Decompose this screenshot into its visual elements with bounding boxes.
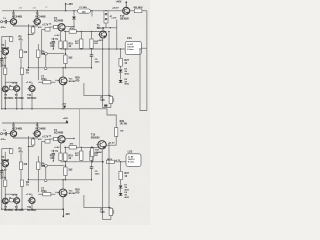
resistor R6' xyxy=(4,167,7,187)
ground branch' xyxy=(2,148,11,150)
bias horizontal wire' xyxy=(28,179,92,180)
wire rail corner to lower stage xyxy=(107,109,116,128)
svg-text:47k: 47k xyxy=(19,150,24,153)
svg-text:+40V: +40V xyxy=(116,0,122,3)
wire R3 down' xyxy=(28,136,33,180)
svg-text:LS1: LS1 xyxy=(127,36,132,40)
wire T4 top' xyxy=(62,179,63,189)
wire R19 top' xyxy=(91,147,92,151)
svg-text:BC546B: BC546B xyxy=(54,131,63,134)
zobel vertical 2 xyxy=(108,31,109,96)
label +2.7V xyxy=(42,24,49,27)
right edge output drop xyxy=(146,11,148,48)
trimmer stub xyxy=(103,103,111,107)
ground line left' xyxy=(1,149,2,210)
wire D7-D9 xyxy=(120,189,122,193)
-40V rail top channel xyxy=(2,105,107,109)
wire T15 emitter' xyxy=(101,149,103,162)
wire T3 collector up xyxy=(65,26,75,27)
wire rail drop to R27 xyxy=(78,109,80,148)
transistor T17 output xyxy=(112,7,130,21)
transistor T9' xyxy=(12,194,20,203)
wire R9 top xyxy=(37,44,39,50)
svg-text:220u: 220u xyxy=(0,176,6,179)
wire R5-R7 xyxy=(20,58,22,69)
resistor R15a xyxy=(64,41,74,49)
wire R5-R7' xyxy=(20,170,22,181)
wire T4 down' xyxy=(62,197,63,210)
output node wire' xyxy=(61,161,104,163)
zobel vertical 1 xyxy=(102,39,104,108)
capacitor C1 xyxy=(1,18,11,29)
resistor R21 xyxy=(91,10,112,23)
+40V arrow at T17 xyxy=(116,0,128,7)
feedback bracket xyxy=(75,77,111,96)
resistor R4' xyxy=(38,138,50,143)
wire R4 to TP' xyxy=(42,143,45,166)
capacitor C3' xyxy=(0,171,7,180)
svg-text:+0.7V: +0.7V xyxy=(115,160,121,162)
transistor T11 xyxy=(26,82,35,92)
svg-text:3k3: 3k3 xyxy=(68,168,73,171)
svg-text:100: 100 xyxy=(50,45,55,48)
svg-text:0R22: 0R22 xyxy=(107,159,113,161)
wire R9 top' xyxy=(37,156,39,162)
resistor R27 xyxy=(119,58,130,66)
wires lower row to rail' xyxy=(5,203,33,209)
resistor R13' xyxy=(50,153,62,160)
resistor R7' xyxy=(20,180,29,187)
diode D9 xyxy=(119,192,130,199)
label R5 xyxy=(19,36,24,42)
test point TP1' xyxy=(45,164,66,167)
capacitor C9 xyxy=(90,39,104,69)
wire R37-D7 xyxy=(120,180,122,185)
resistor R11' xyxy=(49,136,58,141)
trimmer P1' xyxy=(100,207,113,215)
svg-text:BD140: BD140 xyxy=(69,192,77,195)
transistor labels' xyxy=(15,206,37,212)
svg-text:500: 500 xyxy=(100,211,105,214)
resistor R35' xyxy=(106,159,126,163)
loudspeaker LS1 xyxy=(125,36,141,54)
resistor R23' xyxy=(9,197,13,201)
wire loop top xyxy=(139,48,147,55)
wire R9 to C7 node xyxy=(37,58,39,81)
transistor T7' xyxy=(1,198,14,212)
svg-text:+3.4V: +3.4V xyxy=(54,34,60,37)
wire T2 collector to rail' xyxy=(37,122,38,130)
fuse F1 xyxy=(78,6,91,13)
junction x65.4 xyxy=(65,48,66,49)
capacitor C7' xyxy=(38,187,55,195)
bias horizontal wire xyxy=(28,67,92,68)
svg-text:BD140: BD140 xyxy=(69,80,77,83)
svg-text:470n: 470n xyxy=(41,190,47,193)
svg-text:-40V: -40V xyxy=(62,103,67,106)
wire T7cs up' xyxy=(4,152,6,160)
transistor T4 xyxy=(58,77,77,85)
svg-text:2N3055: 2N3055 xyxy=(91,136,100,139)
svg-text:+40.6V: +40.6V xyxy=(112,7,119,10)
wire LS1 right xyxy=(141,47,147,49)
junction em' xyxy=(102,161,121,162)
capacitor C5 xyxy=(51,38,59,50)
svg-text:470: 470 xyxy=(75,79,80,82)
ground branch xyxy=(2,36,11,38)
svg-text:1R 1W: 1R 1W xyxy=(120,122,128,125)
wire T7cs up xyxy=(4,40,6,48)
svg-text:2N3055: 2N3055 xyxy=(120,18,129,21)
transistor T5 xyxy=(97,24,107,38)
wire R17 top xyxy=(81,31,82,39)
svg-text:100n: 100n xyxy=(95,173,101,175)
transistor T5b' xyxy=(91,134,100,140)
label +2.7V' xyxy=(42,136,49,139)
boucherot chain top b xyxy=(115,160,121,171)
capacitor C3 xyxy=(0,59,7,68)
wires lower row tops xyxy=(5,82,32,86)
wire R4 to TP xyxy=(42,31,45,54)
capacitor C1' xyxy=(1,130,11,141)
wire T4 down xyxy=(62,85,63,110)
resistor R19 xyxy=(90,39,99,48)
resistor R5' xyxy=(19,162,28,170)
test point TP1 xyxy=(45,52,66,55)
junction x120.6 xyxy=(120,48,121,49)
wire R17 top' xyxy=(81,147,82,151)
svg-text:LS2: LS2 xyxy=(128,149,133,153)
-40V arrow node xyxy=(62,103,67,109)
ground line left xyxy=(1,37,2,110)
wire T1 collector to rail xyxy=(13,10,14,18)
transistor T2 xyxy=(33,12,46,25)
wire T4 base' xyxy=(55,191,59,193)
svg-text:220u: 220u xyxy=(0,64,6,67)
wire R7 to rail' xyxy=(21,187,22,210)
svg-text:+2.7V: +2.7V xyxy=(42,136,49,139)
junction x116.8 xyxy=(116,48,117,49)
svg-text:BC560C: BC560C xyxy=(15,97,24,100)
-40V arrow node bottom xyxy=(62,209,70,218)
wire T3 emitter' xyxy=(54,143,61,153)
loudspeaker LS2 xyxy=(126,149,141,166)
wire R6 to rail' xyxy=(5,187,6,210)
wire R27-D3 xyxy=(120,66,122,69)
svg-text:-40V: -40V xyxy=(65,213,70,216)
svg-text:R29 0R22: R29 0R22 xyxy=(134,7,144,9)
wire emitter join' xyxy=(14,137,38,139)
resistor R15b xyxy=(64,55,73,64)
junction x102.7 xyxy=(102,48,103,49)
svg-text:8 ohm: 8 ohm xyxy=(128,161,134,163)
zobel vertical 1b' xyxy=(102,161,111,219)
svg-text:+1.4V: +1.4V xyxy=(1,57,7,60)
node +37V xyxy=(111,18,117,49)
faint header marks xyxy=(19,7,48,9)
junction x109.0 xyxy=(108,48,109,49)
bias chain vertical xyxy=(65,31,66,68)
wire T4 base xyxy=(55,79,59,81)
resistor R9 xyxy=(37,50,46,58)
resistor R9' xyxy=(37,162,46,170)
wire R3 down xyxy=(28,24,33,68)
vas line xyxy=(64,27,107,33)
capacitor C7 xyxy=(38,75,55,83)
transistor T7 xyxy=(1,86,14,100)
label R5' xyxy=(19,148,24,154)
junction x81.3 xyxy=(81,48,82,49)
boucherot chain top xyxy=(120,49,122,58)
-40V rail bottom channel xyxy=(2,208,64,210)
label node41' xyxy=(0,0,1,1)
transistor T9 xyxy=(12,82,20,91)
resistor R7 xyxy=(20,68,29,75)
wire T3 emitter xyxy=(54,31,61,41)
wire R7 to rail xyxy=(21,75,22,110)
svg-text:47k: 47k xyxy=(23,51,28,54)
+40V supply arrow node xyxy=(65,3,74,12)
junction x91.5 xyxy=(91,48,92,49)
resistor R17 xyxy=(75,39,83,48)
svg-text:+2.7V: +2.7V xyxy=(42,24,49,27)
svg-text:470n: 470n xyxy=(1,138,7,141)
transistor T1 xyxy=(9,12,22,25)
wires lower row tops' xyxy=(5,194,32,198)
svg-text:+40V: +40V xyxy=(67,3,73,6)
resistor R3 xyxy=(32,26,35,33)
svg-text:F1 2A5: F1 2A5 xyxy=(80,6,88,9)
resistor R15a' xyxy=(64,153,74,161)
feedback bracket' xyxy=(75,189,111,208)
bias chain vertical' xyxy=(65,147,66,180)
input terminal K' xyxy=(1,133,3,135)
diode D5 xyxy=(119,79,130,86)
transistor T1' xyxy=(9,124,22,137)
transistor T11' xyxy=(26,194,35,204)
svg-text:C2: C2 xyxy=(45,7,47,9)
svg-text:3k3: 3k3 xyxy=(68,56,73,59)
capacitor C9' xyxy=(90,151,104,181)
diode D7 xyxy=(119,185,130,192)
capacitor C5' xyxy=(51,150,59,162)
svg-text:C5 56p: C5 56p xyxy=(51,39,59,41)
divider chain top' xyxy=(20,153,22,162)
return loop xyxy=(140,55,147,111)
resistor R6 xyxy=(4,55,7,75)
resistor R2' xyxy=(10,149,13,154)
wire emitter join xyxy=(14,25,38,27)
transistor T7cs xyxy=(0,44,9,59)
resistor R17' xyxy=(75,151,83,160)
vas line' xyxy=(64,143,99,149)
+40V supply arrow node bottom xyxy=(63,117,69,123)
diode D1 xyxy=(72,10,76,30)
svg-text:+3.4V: +3.4V xyxy=(54,146,60,149)
resistor R15b' xyxy=(64,167,73,176)
wire T4 top xyxy=(62,67,63,77)
svg-text:+1.4V: +1.4V xyxy=(1,169,7,172)
transistor T3' xyxy=(54,129,65,143)
output node wire xyxy=(61,48,126,50)
svg-text:+1.2V: +1.2V xyxy=(26,194,32,196)
wire T2 collector to rail xyxy=(37,10,38,18)
test point TP2' xyxy=(44,167,47,182)
transistor T15' xyxy=(96,141,115,149)
svg-text:47k: 47k xyxy=(19,38,24,41)
svg-text:470n: 470n xyxy=(1,26,7,29)
resistor R3' xyxy=(32,138,35,145)
svg-text:+1.2V: +1.2V xyxy=(26,82,32,84)
wire T5 collector xyxy=(103,23,117,31)
wires lower row to rail xyxy=(5,91,33,109)
transistor T4' xyxy=(58,189,77,197)
svg-text:8 ohm: 8 ohm xyxy=(127,49,133,51)
diode D3 xyxy=(119,69,130,76)
svg-text:47k: 47k xyxy=(23,163,28,166)
svg-text:100: 100 xyxy=(50,157,55,160)
transistor T7cs' xyxy=(0,156,9,171)
wire R6 to rail xyxy=(5,75,6,110)
emitter resistor R29 xyxy=(130,7,147,13)
resistor R33' xyxy=(106,120,127,145)
test point TP2 xyxy=(44,55,47,70)
small box E' xyxy=(91,147,100,163)
+40V rail top channel xyxy=(2,10,123,12)
svg-text:+40V: +40V xyxy=(63,117,69,120)
resistor R5 xyxy=(19,50,28,58)
resistor R13 xyxy=(50,41,62,48)
+40V rail bottom channel xyxy=(2,122,68,124)
wire T3 collector up' xyxy=(65,138,75,139)
resistor R11 xyxy=(49,24,58,29)
resistor R23 xyxy=(9,85,13,89)
wire R9 to C7 node' xyxy=(37,170,39,193)
wire D3-D5 xyxy=(120,73,122,80)
svg-text:+37V: +37V xyxy=(111,18,117,20)
svg-text:500: 500 xyxy=(100,99,105,102)
wire T5 emitter xyxy=(102,37,104,40)
resistor R4 xyxy=(38,26,50,31)
resistor R37 xyxy=(119,171,130,179)
trimmer P1 xyxy=(100,95,113,103)
svg-text:C5 56p: C5 56p xyxy=(51,151,59,153)
svg-text:100n: 100n xyxy=(95,61,101,63)
resistor R2 xyxy=(10,37,13,42)
transistor T2' xyxy=(33,124,46,137)
wire T1 collector to rail' xyxy=(13,122,14,130)
input terminal K xyxy=(1,21,3,23)
svg-text:470n: 470n xyxy=(41,78,47,81)
divider chain top xyxy=(20,41,22,50)
transistor labels xyxy=(15,94,37,100)
svg-text:470: 470 xyxy=(75,191,80,194)
zobel vertical 2b' xyxy=(108,144,110,208)
transistor T3 xyxy=(54,17,65,31)
wire R19 top xyxy=(91,31,92,39)
resistor R19' xyxy=(90,151,99,160)
svg-text:BC546B: BC546B xyxy=(54,19,63,22)
